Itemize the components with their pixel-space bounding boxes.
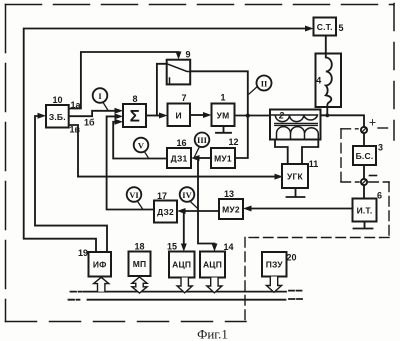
svg-text:20: 20: [286, 253, 296, 263]
label 15: [167, 242, 177, 252]
block АЦП 14: [200, 252, 225, 278]
minus terminal: [361, 179, 367, 185]
svg-text:16: 16: [176, 138, 186, 148]
block ПЗУ 20: [262, 252, 287, 277]
block С.Т. 5: [314, 18, 337, 36]
bus arrow under МП (double): [132, 277, 147, 293]
transformer secondary output box: [275, 140, 318, 165]
arrow into АЦП 15 top: [181, 244, 187, 252]
block МП 18: [129, 252, 151, 277]
wire: 1в line to УГК input: [78, 176, 279, 178]
wire: ИФ to З.Б. input loop: [35, 116, 107, 252]
svg-text:1б: 1б: [84, 118, 95, 128]
wire: ИФ to С.Т. feedback (left tall loop): [24, 29, 306, 253]
arrow into Σ top input: [115, 108, 124, 114]
arrow into МУ2 right: [243, 206, 252, 212]
svg-text:+: +: [369, 116, 376, 130]
arrow into block 9 top: [176, 52, 182, 60]
wire: И.Т. output to МУ2: [251, 208, 353, 210]
svg-text:УГК: УГК: [287, 172, 304, 182]
svg-text:МУ1: МУ1: [214, 154, 232, 164]
svg-text:3: 3: [378, 143, 383, 153]
svg-text:VI: VI: [129, 190, 139, 200]
arrow into С.Т.: [305, 26, 314, 32]
svg-text:1a: 1a: [71, 100, 82, 110]
block МУ1 12: [211, 148, 235, 168]
svg-text:4: 4: [316, 76, 321, 86]
wire: БС to minus terminal: [363, 165, 365, 179]
arrow into Σ middle input: [115, 113, 124, 119]
block ДЗ1 16: [167, 148, 191, 168]
svg-text:14: 14: [223, 242, 233, 252]
bus line upper: [71, 291, 302, 292]
label 14: [223, 242, 233, 252]
block УГК 11: [282, 164, 308, 188]
svg-text:И: И: [176, 111, 182, 121]
integrator И 7: [168, 104, 191, 127]
wire: block 9 output right and down to УМ output line: [190, 71, 248, 115]
plus terminal: [361, 127, 367, 133]
transformer 2 outer box: [270, 110, 321, 140]
svg-text:11: 11: [309, 159, 319, 169]
svg-text:С.Т.: С.Т.: [317, 22, 333, 32]
svg-text:Σ: Σ: [130, 107, 140, 126]
label 1: [220, 93, 225, 103]
block И.Т. 6: [353, 199, 377, 222]
svg-text:ДЗ1: ДЗ1: [171, 154, 188, 164]
svg-text:19: 19: [78, 248, 88, 258]
node circle IV: [180, 187, 198, 208]
wire: minus terminal to И.Т.: [363, 185, 365, 198]
svg-text:12: 12: [228, 137, 238, 147]
svg-text:1: 1: [220, 93, 225, 103]
arrow into УМ: [203, 112, 212, 118]
junction dot: [182, 209, 186, 213]
node circle II: [249, 76, 272, 95]
label 1б: [84, 118, 95, 128]
wire 1б: З.Б. to Σ top input: [69, 111, 116, 116]
svg-text:18: 18: [134, 242, 144, 252]
label 6: [377, 191, 382, 201]
label 1a: [71, 100, 82, 110]
node circle III: [195, 133, 210, 157]
node circle VI: [127, 187, 143, 209]
junction dot coil line: [325, 114, 329, 118]
label 18: [134, 242, 144, 252]
svg-text:Фиг.1: Фиг.1: [197, 327, 228, 341]
wire: С.Т. down to coil 4: [325, 36, 327, 56]
wire: МУ2 output to ДЗ2: [185, 210, 220, 212]
label 3: [378, 143, 383, 153]
wire: И output to УМ: [190, 114, 204, 116]
arrow into ДЗ2 right: [177, 208, 186, 214]
wire: coil 4 bottom to transformer/+ line: [326, 104, 328, 115]
plus sign: [369, 116, 376, 130]
node circle V: [134, 138, 149, 158]
label 2: [278, 111, 284, 121]
node circle I: [93, 88, 108, 110]
svg-text:МП: МП: [133, 259, 147, 269]
bus arrow under ИФ (up): [94, 277, 109, 291]
svg-text:АЦП: АЦП: [203, 260, 222, 270]
svg-text:8: 8: [132, 94, 137, 104]
wire: branch from МУ2-ДЗ2 line down to АЦП 15: [183, 211, 185, 246]
svg-text:13: 13: [224, 189, 234, 199]
svg-text:5: 5: [338, 23, 343, 33]
svg-text:1в: 1в: [70, 125, 81, 135]
svg-text:V: V: [138, 140, 145, 150]
svg-text:Б.С.: Б.С.: [356, 151, 374, 161]
label 5: [338, 23, 343, 33]
svg-text:17: 17: [157, 191, 167, 201]
bus arrow under АЦП 14 (down): [207, 278, 222, 293]
svg-text:9: 9: [185, 50, 190, 60]
wire: МУ1 output to ДЗ1: [199, 157, 212, 159]
svg-text:И.Т.: И.Т.: [357, 206, 373, 216]
junction dot on УМ output: [246, 114, 250, 118]
wire 1a: З.Б. to block 9: [69, 52, 179, 109]
bus arrow under ПЗУ (down): [266, 277, 281, 293]
svg-text:ПЗУ: ПЗУ: [266, 260, 284, 270]
label 10: [52, 95, 62, 105]
dashed battery boundary around БС and terminals: [245, 128, 392, 321]
label 16: [176, 138, 186, 148]
block АЦП 15: [169, 252, 195, 278]
label 9: [185, 50, 190, 60]
svg-text:6: 6: [377, 191, 382, 201]
svg-text:УМ: УМ: [217, 111, 230, 121]
svg-text:АЦП: АЦП: [172, 260, 191, 270]
label 13: [224, 189, 234, 199]
ground under УМ: [216, 126, 231, 133]
label 4: [316, 76, 321, 86]
svg-text:З.Б.: З.Б.: [49, 112, 66, 122]
block 9 variable element: [167, 60, 191, 85]
bus line lower: [69, 298, 303, 301]
label 11: [309, 159, 319, 169]
svg-text:2: 2: [278, 111, 284, 121]
amplifier УМ 1: [212, 104, 235, 127]
svg-text:IV: IV: [182, 190, 192, 200]
arrow into З.Б.: [38, 113, 47, 119]
svg-text:7: 7: [181, 93, 186, 103]
wire: block 9 left lead down to Σ-И wire: [157, 64, 167, 116]
outer dash-dot border top: [6, 4, 395, 6]
label 8: [132, 94, 137, 104]
svg-text:15: 15: [167, 242, 177, 252]
label 7: [181, 93, 186, 103]
svg-text:ДЗ2: ДЗ2: [157, 207, 174, 217]
block ИФ 19: [89, 252, 112, 277]
outer dash-dot border bottom: [6, 321, 247, 323]
wire: plus terminal to БС: [363, 133, 365, 146]
transformer core: [275, 123, 318, 125]
wire: junction down to МУ1 input: [235, 116, 248, 159]
arrow into И: [159, 113, 168, 119]
wire: УМ output to transformer primary: [235, 115, 271, 117]
arrow into УГК: [275, 174, 284, 180]
wire: ДЗ1 output feedback to Σ bottom input: [113, 122, 167, 159]
ground under УГК: [287, 188, 305, 197]
arrow into ДЗ1 right: [191, 155, 200, 161]
coil 4: [316, 54, 342, 108]
svg-text:III: III: [197, 135, 208, 145]
block БС 3: [353, 146, 376, 165]
label 20: [286, 253, 296, 263]
junction on МУ1 input line: [196, 156, 200, 160]
arrow into Σ bottom input: [115, 119, 124, 125]
minus sign: [370, 175, 377, 177]
summator Σ 8: [123, 104, 146, 127]
wire: Σ output to И with block 9 tap: [146, 115, 160, 117]
svg-text:МУ2: МУ2: [222, 205, 240, 215]
wire: branch from МУ1 input line down to АЦП 14: [198, 158, 215, 246]
wire 1в: З.Б. bottom port down: [69, 125, 78, 177]
arrow into АЦП 14 top: [212, 244, 218, 252]
wire: transformer primary to plus terminal: [321, 115, 365, 127]
block З.Б. 10: [46, 105, 69, 128]
outer dash-dot border right: [393, 4, 395, 141]
label 19: [78, 248, 88, 258]
bus arrow under АЦП 15 (down): [177, 278, 192, 293]
figure caption: [197, 327, 228, 341]
transformer primary winding: [270, 115, 318, 122]
block ДЗ2 17: [154, 201, 177, 223]
ground under И.Т.: [354, 222, 373, 229]
transformer secondary winding: [277, 127, 319, 140]
label 12: [228, 137, 238, 147]
svg-text:II: II: [261, 78, 268, 88]
wire: ДЗ2 output feedback to Σ middle input: [107, 116, 154, 209]
label 17: [157, 191, 167, 201]
svg-text:ИФ: ИФ: [93, 260, 107, 270]
outer dash-dot border left: [5, 5, 7, 322]
svg-text:10: 10: [52, 95, 62, 105]
block МУ2 13: [219, 199, 243, 219]
label 1в: [70, 125, 81, 135]
